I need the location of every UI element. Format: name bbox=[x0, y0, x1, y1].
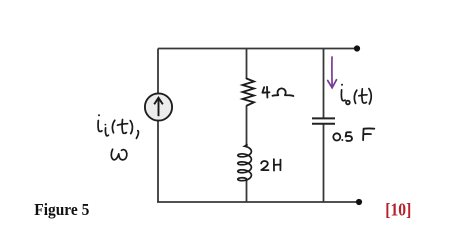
svg-text:Figure 5: Figure 5 bbox=[34, 200, 89, 219]
wire right branch upper bbox=[323, 49, 325, 119]
resistor 4ohm zigzag bbox=[243, 79, 255, 106]
wire middle branch between R and L bbox=[246, 106, 248, 147]
wire top rail bbox=[158, 48, 354, 50]
capacitor 0.5F plates bbox=[312, 118, 335, 123]
svg-text:[10]: [10] bbox=[385, 199, 411, 219]
label 0.5F (handwritten) bbox=[333, 128, 374, 141]
current source I1 bbox=[145, 93, 172, 120]
wire left rail upper bbox=[157, 49, 159, 94]
node bottom-right terminal bbox=[356, 199, 362, 205]
wire bottom rail bbox=[157, 201, 356, 203]
label io(t) (handwritten) bbox=[341, 84, 371, 105]
label 4 ohm (handwritten) bbox=[262, 87, 293, 98]
label ii(t), omega (handwritten) bbox=[98, 114, 138, 160]
wire right branch lower bbox=[323, 124, 325, 202]
inductor 2H coil bbox=[238, 144, 252, 180]
node top-right terminal bbox=[354, 45, 360, 51]
wire middle branch top bbox=[246, 49, 248, 80]
wire middle branch bottom bbox=[246, 180, 248, 202]
arrow io(t) purple bbox=[328, 57, 337, 88]
label 2H (handwritten) bbox=[261, 159, 280, 170]
wire left rail lower bbox=[157, 121, 159, 203]
